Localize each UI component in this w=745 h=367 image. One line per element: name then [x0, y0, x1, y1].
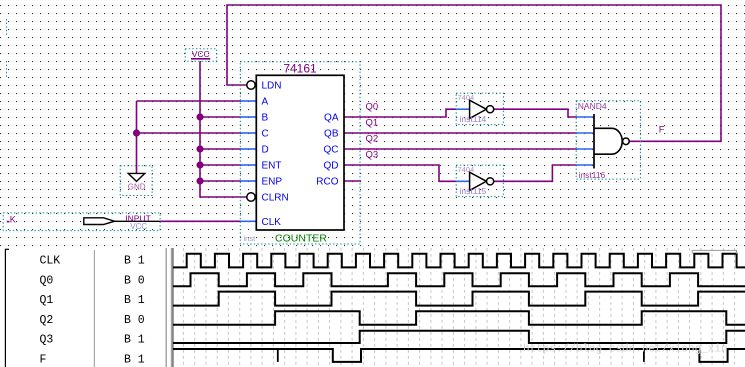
svg-text:Q2: Q2	[366, 133, 379, 144]
wire GND to A	[137, 100, 241, 102]
svg-text:GND: GND	[128, 182, 146, 191]
counter 74161 selection box	[240, 62, 360, 244]
svg-text:ENT: ENT	[262, 161, 282, 172]
waveform panel divider bars	[165, 248, 167, 367]
nand gate body	[594, 128, 622, 154]
svg-text:K: K	[10, 215, 16, 225]
waveform trace Q1	[173, 292, 745, 306]
wire VCC to B	[200, 116, 241, 118]
waveform name/value separator	[93, 250, 95, 367]
clipped selection box edge (off-screen pin) second	[6, 61, 8, 77]
svg-text:B: B	[262, 113, 269, 124]
svg-text:Q3: Q3	[40, 334, 54, 347]
svg-text:A: A	[262, 97, 269, 108]
svg-text:B 1: B 1	[124, 294, 145, 307]
inverter U inst115 7404	[456, 165, 503, 197]
svg-text:Q2: Q2	[40, 314, 54, 327]
wire VCC to ENT	[200, 164, 241, 166]
pin stubs NAND4 inputs	[576, 116, 594, 118]
svg-text:CLK: CLK	[262, 217, 282, 228]
svg-text:C: C	[262, 129, 269, 140]
svg-text:https://blog.csdn.net/xiong_xi: https://blog.csdn.net/xiong_xin	[523, 344, 728, 356]
inverter U inst114 7404	[456, 93, 503, 125]
waveform F glitch 1	[277, 349, 279, 362]
nand gate inst116 NAND4 selection box	[576, 101, 640, 179]
waveform time gridlines	[183, 248, 734, 367]
junction on VCC net y=149	[196, 145, 203, 152]
waveform trace Q2	[173, 311, 745, 325]
junction on VCC net y=117	[196, 113, 203, 120]
wire RCO unconnected stub	[344, 180, 362, 182]
waveform trace F	[173, 349, 745, 362]
pin stub inst115 input	[456, 180, 470, 182]
svg-text:B 1: B 1	[124, 354, 145, 367]
svg-text:inst116: inst116	[579, 170, 606, 180]
pin stubs 74161 inputs	[241, 100, 257, 102]
wire VCC to ENP	[200, 180, 241, 182]
svg-text:VCC: VCC	[130, 222, 147, 231]
wire GND to C	[137, 132, 241, 134]
svg-text:Q3: Q3	[366, 149, 379, 160]
svg-text:QD: QD	[324, 161, 339, 172]
svg-text:Q0: Q0	[40, 274, 54, 287]
waveform F glitch 2	[643, 349, 645, 362]
wire F net: NAND4 output feedback loop to LDN	[227, 5, 721, 141]
svg-text:B 0: B 0	[124, 274, 145, 287]
svg-text:B 1: B 1	[124, 255, 145, 268]
nand gate bubble	[623, 138, 630, 145]
svg-text:D: D	[262, 145, 269, 156]
wire CLK net	[160, 220, 240, 222]
svg-text:inst115: inst115	[460, 186, 487, 196]
wire Q2 net QC to NAND4 input 3	[344, 148, 576, 150]
svg-text:CLK: CLK	[40, 255, 61, 268]
wire inst114 output to NAND4 input 1	[494, 109, 577, 117]
svg-text:NAND4: NAND4	[578, 101, 607, 111]
wire Q3 net QD to inverter inst115	[344, 165, 456, 181]
pin bubble CLRN	[247, 193, 255, 201]
svg-text:Q1: Q1	[366, 117, 379, 128]
waveform trace CLK	[173, 254, 745, 268]
counter 74161 body	[256, 75, 344, 230]
power symbol VCC	[185, 49, 217, 62]
timeline end marker bracket	[692, 250, 736, 253]
waveform trace Q0	[173, 273, 745, 286]
wire VCC to D	[200, 148, 241, 150]
svg-text:F: F	[659, 124, 665, 135]
junction on VCC net y=181	[196, 177, 203, 184]
svg-text:B 0: B 0	[124, 314, 145, 327]
svg-text:74161: 74161	[283, 62, 317, 76]
svg-text:RCO: RCO	[316, 177, 338, 188]
svg-text:VCC: VCC	[192, 49, 210, 59]
svg-text:COUNTER: COUNTER	[275, 233, 327, 245]
pin bubble LDN	[247, 81, 255, 89]
svg-text:CLRN: CLRN	[262, 193, 289, 204]
svg-text:ENP: ENP	[262, 177, 283, 188]
svg-text:Q1: Q1	[40, 294, 54, 307]
input pin arrow symbol	[114, 220, 160, 222]
junction on VCC net y=165	[196, 161, 203, 168]
clipped selection box edge (off-screen pin) top	[6, 19, 8, 35]
wire Q1 net QB to NAND4 input 2	[344, 132, 576, 134]
svg-text:F: F	[40, 354, 47, 367]
svg-text:B 1: B 1	[124, 334, 145, 347]
waveform trace Q3	[173, 331, 745, 343]
svg-text:Q0: Q0	[366, 101, 379, 112]
svg-text:QA: QA	[324, 113, 339, 124]
wire GND net vertical trunk	[136, 101, 138, 173]
wire Q0 net QA to inverter inst114	[344, 109, 456, 117]
waveform panel left border	[4, 249, 6, 367]
junction on GND net at C row	[133, 129, 140, 136]
svg-text:inst114: inst114	[460, 114, 487, 124]
svg-text:inst: inst	[244, 234, 257, 243]
svg-text:QC: QC	[324, 145, 339, 156]
pin stub inst114 input	[456, 108, 470, 110]
wire inst115 output to NAND4 input 4	[494, 165, 577, 181]
input pin CLK selection box	[3, 213, 160, 231]
wire VCC net vertical trunk	[200, 62, 247, 198]
svg-text:LDN: LDN	[262, 81, 282, 92]
ground symbol GND	[120, 166, 152, 196]
svg-text:QB: QB	[324, 129, 339, 140]
